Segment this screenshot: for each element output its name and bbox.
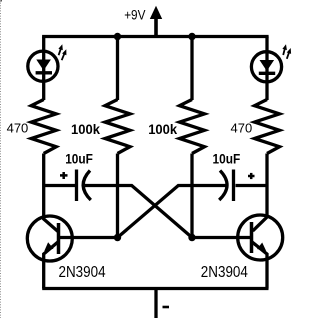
svg-text:2N3904: 2N3904 xyxy=(201,264,248,281)
svg-text:10uF: 10uF xyxy=(213,151,241,167)
svg-text:2N3904: 2N3904 xyxy=(59,264,106,281)
svg-text:100k: 100k xyxy=(148,121,177,137)
svg-text:10uF: 10uF xyxy=(65,151,93,167)
svg-text:100k: 100k xyxy=(71,121,100,137)
svg-text:470: 470 xyxy=(231,120,253,135)
svg-text:+9V: +9V xyxy=(124,7,146,23)
svg-text:470: 470 xyxy=(7,121,29,136)
